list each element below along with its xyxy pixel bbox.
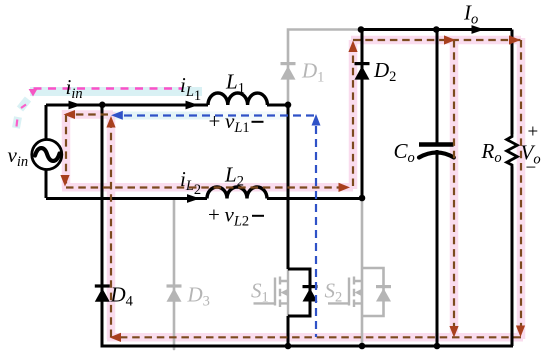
current arrow I_o: [472, 25, 485, 34]
wire: dashed bottom return: [112, 336, 521, 338]
wire: dashed D4 riser: [110, 117, 112, 337]
wire: bottom input rail to L2 node: [46, 197, 207, 200]
blue arrowheads: [111, 111, 321, 126]
blue dashed freewheel loop: [124, 116, 316, 338]
wire: S1 external body-diode loop (black, conducting): [288, 269, 310, 316]
diode D3 (gray): [167, 284, 182, 301]
S2 body arrow (gray): [355, 289, 363, 297]
pink descent dashes toward source: [17, 105, 27, 127]
MOSFET S2 (gray, inactive) drain wire from L2 node: [362, 200, 384, 345]
wire: source top lead: [45, 105, 48, 140]
pink arrowhead: [29, 89, 38, 97]
wire: dashed top horizontal: [353, 39, 521, 41]
pink halo of dark-red current loops: [62, 38, 523, 339]
svg-text:−: −: [526, 158, 537, 179]
cyan halo of blue loop: [106, 112, 290, 120]
wire: Ro branch: [511, 30, 514, 347]
svg-text:+: +: [528, 122, 539, 143]
wire: S1 drain from node A': [287, 105, 290, 269]
wire: bottom rail: [101, 345, 514, 348]
gray inactive branch: diode D1 branch wire: [288, 30, 361, 104]
dark red dashed loop: source/D4 small loop + main output loop: [66, 40, 521, 337]
wire: dashed D2 riser: [352, 43, 354, 186]
S1 body arrow (gray): [281, 289, 289, 297]
wire: source bottom lead: [45, 169, 48, 198]
wire: dashed Co branch drop: [453, 40, 455, 335]
wire: Co branch: [436, 30, 439, 347]
cyan halo of pink i_in path: [16, 92, 202, 129]
diode D2 (black): [355, 62, 370, 80]
wire: top input rail from source to node A': [46, 30, 513, 347]
capacitor Co plates: [419, 142, 454, 147]
pink dashed i_in indicator: [34, 87, 183, 89]
MOSFET S1 gray symbol (channel off): [254, 267, 289, 318]
AC source v_in: [32, 140, 62, 170]
wire: blue dashed horizontal: [124, 114, 315, 116]
svg-text:+: +: [208, 203, 220, 227]
wire: dashed lower horizontal along L2: [66, 186, 348, 188]
wire: dashed right drop: [520, 40, 522, 335]
current arrow i_in: [69, 101, 82, 110]
inductor L2: [207, 187, 267, 199]
svg-text:+: +: [209, 109, 221, 133]
diode D4 (black): [95, 284, 110, 301]
diode D1 (gray): [281, 62, 296, 80]
wire: D2 branch: [361, 30, 364, 199]
wire: blue dashed vertical: [315, 126, 317, 337]
junction dots: [99, 102, 106, 109]
wire: dashed top of left loop: [66, 113, 108, 115]
wire: D4 branch (node A down to bottom rail): [101, 105, 104, 346]
dark red arrowheads: [60, 35, 525, 342]
S1 body diode (black, conducting): [303, 285, 318, 302]
wire: dashed left loop left side: [65, 115, 67, 189]
wire: top output rail: [361, 28, 512, 31]
S2 mosfet symbol (gray): [328, 277, 362, 308]
current arrow i_L1: [186, 101, 199, 110]
current arrow i_L2: [187, 194, 200, 203]
S2 body diode (gray): [376, 285, 391, 302]
resistor Ro zigzag: [507, 133, 518, 168]
inductor L1: [208, 93, 267, 105]
gray inactive branch: diode D3 branch wire: [173, 199, 176, 349]
